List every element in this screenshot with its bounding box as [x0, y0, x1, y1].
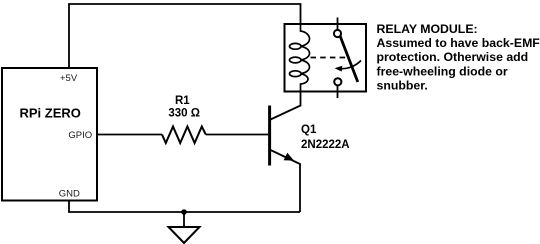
svg-text:Assumed to have back-EMF: Assumed to have back-EMF — [377, 36, 540, 50]
svg-text:snubber.: snubber. — [377, 79, 428, 93]
ground bus wire (bottom) — [69, 200, 300, 212]
wire R1 to Q1 base — [206, 134, 268, 136]
wire GPIO to R1 — [97, 134, 162, 136]
relay module box — [285, 24, 367, 92]
transistor Q1 collector lead — [271, 92, 301, 120]
transistor Q1 base bar — [268, 106, 271, 166]
svg-text:GPIO: GPIO — [68, 130, 92, 141]
relay contact terminal stub (top) — [337, 18, 339, 31]
svg-text:free-wheeling diode or: free-wheeling diode or — [377, 64, 508, 78]
module RPi ZERO (box) — [2, 68, 97, 201]
svg-text:Q1: Q1 — [301, 124, 317, 136]
relay actuation curved arrow — [340, 61, 361, 69]
resistor R1 (zigzag) — [162, 127, 206, 144]
relay coil — [290, 24, 310, 92]
relay contact circle (bottom) — [334, 78, 341, 85]
svg-text:+5V: +5V — [60, 73, 78, 84]
relay actuation dashed link — [311, 57, 347, 59]
svg-text:RELAY MODULE:: RELAY MODULE: — [377, 22, 478, 36]
relay contact circle (top) — [334, 30, 341, 37]
relay contact terminal stub (bottom) — [337, 85, 339, 98]
svg-text:protection. Otherwise add: protection. Otherwise add — [377, 50, 529, 64]
annotation text block — [377, 22, 540, 93]
junction dot at ground tap — [181, 209, 187, 215]
transistor Q1 emitter lead — [271, 150, 301, 212]
transistor Q1 emitter arrow — [284, 153, 294, 161]
relay switch blade — [340, 36, 358, 82]
svg-text:R1: R1 — [175, 95, 190, 107]
svg-text:330 Ω: 330 Ω — [168, 108, 200, 120]
svg-text:2N2222A: 2N2222A — [301, 139, 350, 151]
svg-text:RPi ZERO: RPi ZERO — [20, 106, 81, 121]
svg-text:GND: GND — [59, 189, 80, 200]
ground symbol triangle — [169, 227, 200, 243]
wire +5V: RPi top pin up, across, down to relay coil — [69, 4, 301, 68]
ground symbol stem — [183, 212, 185, 230]
